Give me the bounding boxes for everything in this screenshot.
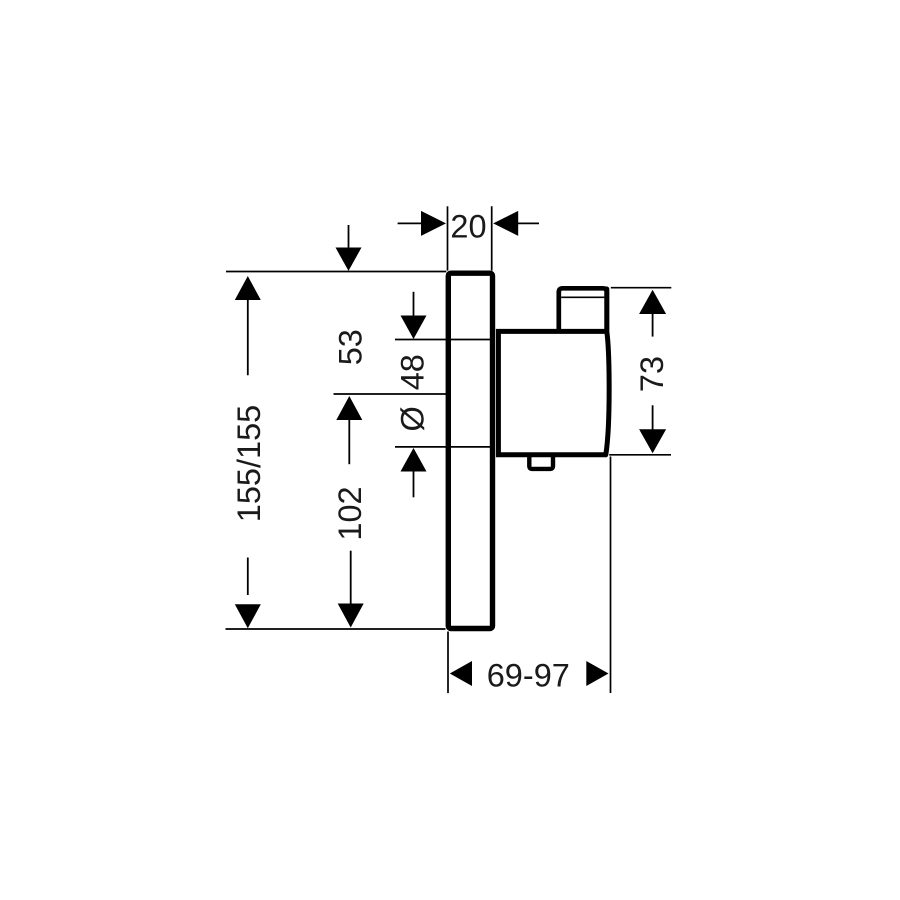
valve body right edge (bulged) (606, 289, 609, 455)
dim 155/155 top arrow (235, 276, 261, 300)
valve body outline (498, 331, 606, 454)
svg-text:Ø: Ø (395, 406, 431, 431)
svg-text:48: 48 (395, 354, 431, 390)
dim 20 extension line left (447, 206, 449, 270)
reference line top (plate top) (226, 271, 446, 273)
reference line flange top (D) (395, 339, 490, 341)
dim 20 left tail (398, 222, 422, 224)
bottom tab (stop screw) (529, 455, 553, 469)
reference line center axis (334, 393, 447, 395)
dim 73 top arrow (639, 290, 666, 314)
dim 20 left arrow (421, 211, 446, 236)
svg-text:155/155: 155/155 (231, 405, 267, 522)
dim 20 right tail (518, 222, 540, 224)
svg-text:69-97: 69-97 (487, 658, 570, 694)
dim diameter 48 bottom arrow (points up to flange bottom) (401, 448, 427, 472)
svg-text:102: 102 (332, 486, 368, 540)
dim 69-97 left arrow (450, 661, 472, 686)
dim 73 extension line top (611, 287, 672, 289)
dim 20 extension line right (491, 206, 493, 270)
faceplate (escutcheon, side view) (448, 273, 492, 628)
dim 73 extension line bottom (609, 454, 671, 456)
handle cap seam (561, 296, 604, 298)
dim 69-97 extension line left (447, 632, 449, 694)
svg-text:20: 20 (450, 209, 486, 245)
svg-text:53: 53 (333, 329, 369, 365)
svg-text:73: 73 (634, 356, 670, 392)
dim 102 top arrow (points up to center line) (336, 396, 362, 420)
dim diameter 48 top arrow (points down to flange top) (413, 292, 415, 317)
reference line flange bottom (C) (395, 446, 490, 448)
dim 69-97 right arrow (586, 661, 608, 686)
dim 73 bottom arrow (652, 405, 654, 430)
handle (559, 288, 607, 331)
dim 53 top arrow (points down to plate top line) (348, 225, 350, 252)
dim 155/155 bottom arrow (247, 558, 249, 596)
reference line bottom (plate bottom) (226, 628, 446, 630)
dim 69-97 extension line right (610, 457, 612, 694)
dim 20 right arrow (493, 211, 518, 236)
dim 102 bottom arrow (350, 551, 352, 605)
